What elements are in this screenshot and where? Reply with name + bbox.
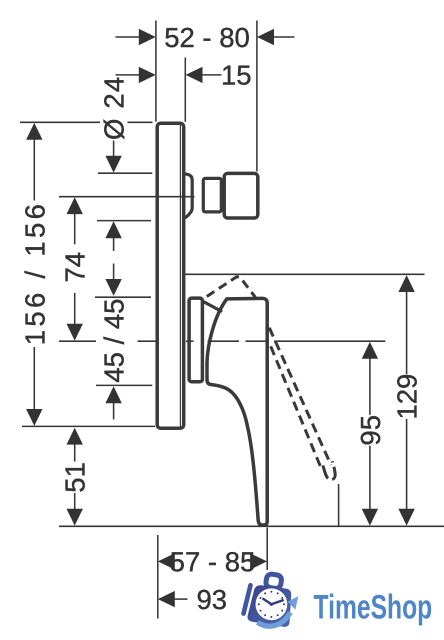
svg-text:74: 74 xyxy=(60,252,91,283)
svg-text:57 - 85: 57 - 85 xyxy=(170,546,256,577)
svg-text:52 - 80: 52 - 80 xyxy=(164,22,250,53)
svg-text:51: 51 xyxy=(60,462,91,493)
svg-text:95: 95 xyxy=(355,415,386,446)
svg-text:TimeShop: TimeShop xyxy=(314,589,433,627)
svg-text:15: 15 xyxy=(221,59,252,90)
svg-text:129: 129 xyxy=(392,374,423,420)
svg-text:Ø 24: Ø 24 xyxy=(99,76,130,140)
svg-text:156 / 156: 156 / 156 xyxy=(19,201,50,345)
svg-text:93: 93 xyxy=(196,584,227,615)
svg-text:45 / 45: 45 / 45 xyxy=(99,299,130,383)
